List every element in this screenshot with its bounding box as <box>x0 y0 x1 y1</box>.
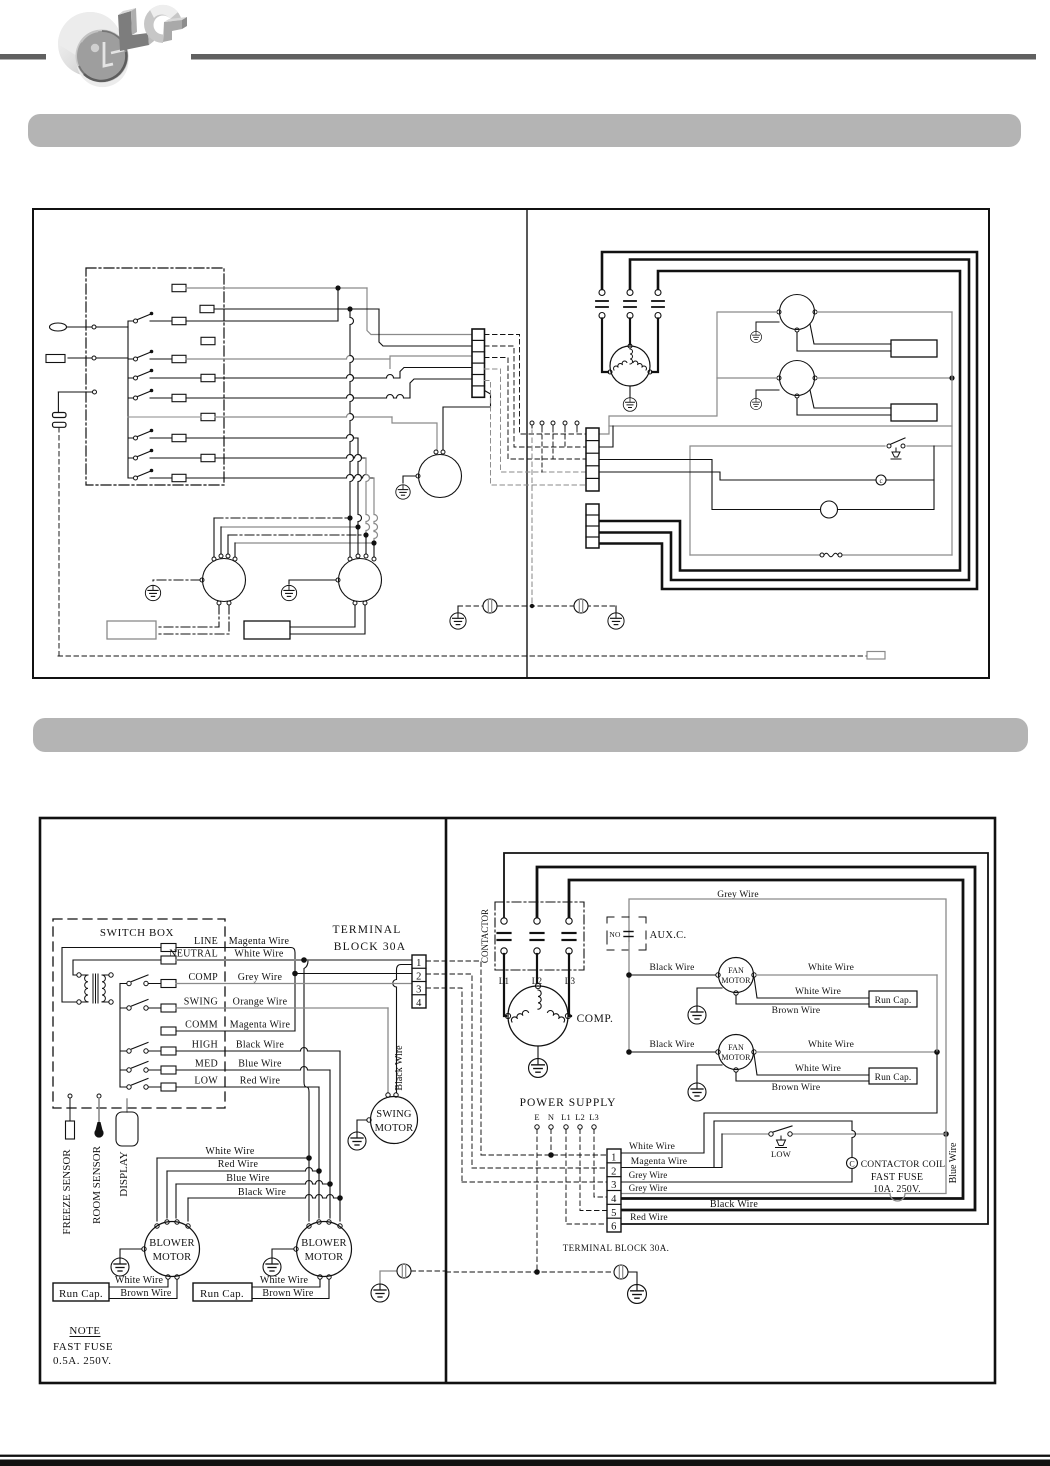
stack1 jog wire <box>599 426 613 447</box>
svg-text:Black Wire: Black Wire <box>650 1040 695 1050</box>
LOW red wire <box>176 1086 319 1088</box>
wire row F to connector c6 <box>215 375 400 378</box>
svg-text:FAN: FAN <box>728 1043 744 1052</box>
wire row H (grey) to swing motor <box>215 414 392 418</box>
wire row B (black) to connector c2 <box>214 308 379 310</box>
svg-text:FAN: FAN <box>728 966 744 975</box>
thick power loop L3 (row4) <box>569 880 963 1199</box>
row COMM terminal <box>161 1027 176 1035</box>
fan2 ground <box>756 390 779 398</box>
switch-box row I terminal <box>172 434 186 441</box>
bus end plug <box>867 652 885 660</box>
row H left wire <box>128 416 201 418</box>
freeze sensor symbol <box>68 1094 72 1098</box>
blower motor 1 (top diagram) <box>203 559 246 602</box>
fan motor 1 (top diagram) <box>780 295 815 330</box>
row MED terminal <box>161 1066 176 1074</box>
terminal stack 1 (top diagram) <box>586 428 599 491</box>
left plug rectangle <box>46 355 65 363</box>
row LOW terminal <box>161 1083 176 1091</box>
earth dashed bus (top diagram) <box>458 605 616 607</box>
blower2 ground wire <box>289 580 336 584</box>
pins block 1-4 <box>412 955 426 1008</box>
svg-text:AUX.C.: AUX.C. <box>650 930 687 941</box>
run capacitor fan2 <box>891 404 937 421</box>
svg-text:MOTOR: MOTOR <box>153 1252 192 1263</box>
svg-text:6: 6 <box>611 1222 617 1233</box>
switch-box row F terminal <box>201 374 215 381</box>
power supply terminals (top diagram) <box>530 421 534 425</box>
N dashed drop <box>550 1129 552 1155</box>
svg-text:TERMINAL BLOCK 30A.: TERMINAL BLOCK 30A. <box>563 1243 670 1253</box>
ground right (top diagram) <box>608 613 624 629</box>
switch-box row J terminal <box>201 454 215 461</box>
blower bus row3 dash-dot <box>228 534 366 536</box>
aux contact box <box>607 917 646 950</box>
svg-text:3: 3 <box>416 985 422 996</box>
svg-text:Black Wire: Black Wire <box>710 1199 758 1210</box>
svg-text:HIGH: HIGH <box>192 1040 218 1051</box>
COMM magenta wire <box>176 1030 295 1032</box>
fan1 grey feed <box>599 312 777 434</box>
svg-text:White Wire: White Wire <box>205 1146 255 1157</box>
svg-text:NOTE: NOTE <box>69 1325 100 1337</box>
contactor coil wire (top diagram) <box>599 472 876 480</box>
switch row G <box>128 397 134 399</box>
switch row F <box>128 377 134 379</box>
svg-text:Magenta Wire: Magenta Wire <box>229 936 290 947</box>
svg-text:MOTOR: MOTOR <box>305 1252 344 1263</box>
connector block 6-pin <box>472 329 485 397</box>
pin1 black wire to swing motor <box>295 973 412 975</box>
svg-text:CONTACTOR: CONTACTOR <box>480 909 490 963</box>
switch-box row A terminal <box>172 284 186 291</box>
svg-text:L1: L1 <box>561 1112 570 1122</box>
fan motor 1 (bottom) <box>719 958 754 993</box>
svg-text:White Wire: White Wire <box>115 1275 164 1286</box>
header rule left <box>0 54 46 60</box>
svg-text:L3: L3 <box>589 1112 598 1122</box>
svg-text:SWING: SWING <box>184 997 218 1008</box>
display symbol <box>126 1099 128 1112</box>
HIGH black wire <box>176 1048 340 1051</box>
bottom diagram outer box <box>40 818 995 1383</box>
footer thick rule <box>0 1460 1050 1466</box>
capacitor plates <box>53 413 67 418</box>
svg-text:DISPLAY: DISPLAY <box>118 1151 130 1196</box>
section header bar 1 <box>28 114 1021 147</box>
switch-box row E terminal <box>172 355 186 362</box>
L1 dashed drop to row6 <box>566 1129 607 1224</box>
switch MED <box>120 1069 127 1071</box>
fan1 ground <box>756 322 779 331</box>
row COMP terminal <box>161 980 176 988</box>
letter G block <box>144 5 182 43</box>
bottom dashed bus (top diagram) <box>58 655 867 657</box>
white loop right vertical (grey) <box>951 312 953 555</box>
svg-text:Run Cap.: Run Cap. <box>875 1073 912 1083</box>
comp windings Y <box>538 990 541 1009</box>
svg-text:White Wire: White Wire <box>808 963 854 973</box>
wire row G to connector c7 <box>186 395 410 398</box>
COMP grey wire to pin3 <box>176 983 412 985</box>
black wire fan2 <box>626 1049 632 1055</box>
left fuse to ground <box>380 1271 397 1284</box>
pin dashed links to power supply <box>426 961 481 1155</box>
wire row C joins row A <box>186 320 338 322</box>
connector dashed outputs to right half <box>485 335 587 435</box>
svg-text:LINE: LINE <box>194 936 218 947</box>
svg-text:L2: L2 <box>575 1112 584 1122</box>
svg-text:4: 4 <box>611 1194 617 1205</box>
contactor box (bottom, dash-dot) <box>495 902 584 970</box>
svg-text:White Wire: White Wire <box>795 1064 841 1074</box>
svg-text:Red Wire: Red Wire <box>630 1213 668 1223</box>
power terminal dashed drops <box>576 428 578 434</box>
svg-text:COMP.: COMP. <box>577 1013 614 1025</box>
letter L block <box>118 11 149 51</box>
svg-text:1: 1 <box>611 1153 617 1164</box>
svg-text:2: 2 <box>416 971 422 982</box>
svg-text:COMM: COMM <box>185 1020 218 1031</box>
bus drops to blower motor 1 <box>213 518 215 557</box>
fan2 white wire right <box>817 377 952 379</box>
wire row A (grey) to connector c1 <box>186 287 367 289</box>
svg-text:N: N <box>548 1112 554 1122</box>
switch row I <box>128 437 134 439</box>
thick power loop L3 <box>599 271 960 571</box>
svg-text:Red Wire: Red Wire <box>218 1159 259 1170</box>
NEUTRAL white wire to pin1 <box>176 959 412 961</box>
svg-text:POWER SUPPLY: POWER SUPPLY <box>520 1097 617 1109</box>
svg-text:LOW: LOW <box>771 1149 791 1159</box>
svg-text:White Wire: White Wire <box>260 1275 309 1286</box>
comp ground stub <box>629 386 631 397</box>
LOW lamp symbol <box>891 448 901 459</box>
switch bus <box>127 321 129 478</box>
contact leads to comp motor <box>602 319 608 373</box>
switch-box row B terminal <box>200 305 214 312</box>
svg-text:Orange Wire: Orange Wire <box>233 997 288 1008</box>
wire row K to blower bus v4 <box>186 475 374 478</box>
svg-text:SWING: SWING <box>376 1109 412 1120</box>
terminal stack 2 (top diagram) <box>586 504 599 548</box>
overload circle wire <box>599 460 821 510</box>
run cap 1 (bottom) <box>53 1283 109 1301</box>
LOW lamp symbol <box>776 1136 787 1148</box>
svg-text:Run Cap.: Run Cap. <box>59 1288 103 1300</box>
svg-text:LOW: LOW <box>194 1076 218 1087</box>
section header bar 2 <box>33 718 1028 752</box>
comp motor (top diagram) <box>610 346 650 386</box>
blower2 ground <box>272 1249 294 1258</box>
wire row E (grey) to connector c5 <box>186 356 390 359</box>
svg-text:2: 2 <box>611 1166 617 1177</box>
switch box (bottom, dashed) <box>53 919 225 1108</box>
header rule right <box>191 54 1036 60</box>
swing motor (top diagram) <box>419 455 462 498</box>
swing ground wire <box>357 1120 367 1132</box>
blower motor 2 (bottom) <box>297 1222 352 1277</box>
contactor contacts L1 L2 L3 <box>501 918 507 924</box>
ground left (top diagram) <box>450 613 466 629</box>
switch-box row K terminal <box>172 474 186 481</box>
SWING orange wire <box>176 1007 388 1009</box>
blower bus row1 dash-dot <box>214 517 350 519</box>
junction dot row A <box>335 285 340 290</box>
svg-text:Run Cap.: Run Cap. <box>875 996 912 1006</box>
switch row C <box>128 320 134 322</box>
svg-text:0.5A. 250V.: 0.5A. 250V. <box>53 1355 111 1367</box>
thick power loop L2 (black row5) <box>537 867 975 1210</box>
svg-text:L3: L3 <box>565 976 576 986</box>
svg-text:COMP: COMP <box>188 972 218 983</box>
switch row J <box>128 457 134 459</box>
blower1 ground wire (dash-dot) <box>153 580 200 584</box>
L2 dashed drop to row5 <box>580 1129 607 1211</box>
switch-box row H terminal <box>201 413 215 420</box>
comp ground <box>537 1046 539 1058</box>
row NEUTRAL terminal <box>161 956 176 964</box>
svg-text:4: 4 <box>416 998 422 1009</box>
svg-text:3: 3 <box>611 1180 617 1191</box>
contact leads to comp <box>504 954 506 1016</box>
run capacitor 1 (top diagram) <box>107 621 156 639</box>
LOW switch (top diagram) <box>887 444 891 448</box>
comp windings <box>630 349 633 364</box>
bus drops to blower motor 2 <box>349 518 351 557</box>
svg-text:BLOCK 30A: BLOCK 30A <box>334 941 406 953</box>
svg-text:TERMINAL: TERMINAL <box>332 924 401 936</box>
svg-text:E: E <box>534 1112 539 1122</box>
contactor contacts (top diagram) <box>599 290 605 296</box>
white wire fan2 <box>756 1051 937 1053</box>
L3 dashed drop to row4 <box>594 1129 607 1197</box>
svg-text:ROOM SENSOR: ROOM SENSOR <box>91 1145 103 1224</box>
ground (bottom right) <box>628 1285 647 1304</box>
switch row K <box>128 477 134 479</box>
blower motor 2 (top diagram) <box>339 559 382 602</box>
thick power loop L1 <box>599 252 977 589</box>
blower feed vertical v3 <box>366 458 370 535</box>
ground fan1 <box>697 988 722 1006</box>
run cap 2 (bottom) <box>193 1283 252 1301</box>
swing motor (bottom) <box>371 1097 418 1144</box>
terminal block 1-6 <box>607 1149 621 1232</box>
grey row4 with fuse <box>621 1131 946 1201</box>
footer thin rule <box>0 1455 1050 1457</box>
blower bus row4 <box>235 542 374 544</box>
svg-text:10A. 250V.: 10A. 250V. <box>873 1184 921 1195</box>
bottom earth dashed bus <box>446 1271 614 1273</box>
switch LOW <box>120 1086 127 1088</box>
top diagram outer box <box>33 209 989 678</box>
switch-box row C terminal <box>172 317 186 324</box>
dashed feeds rows 1-3 <box>481 1154 607 1156</box>
top diagram divider <box>526 209 528 678</box>
dashed drop from capacitor to bottom bus <box>58 428 60 657</box>
fan motor 2 (top diagram) <box>780 361 815 396</box>
svg-text:Blue Wire: Blue Wire <box>226 1173 270 1184</box>
ground blower1 <box>145 585 160 600</box>
svg-text:BLOWER: BLOWER <box>149 1238 195 1249</box>
thick power loop L2 <box>599 260 969 581</box>
svg-text:Black Wire: Black Wire <box>650 963 695 973</box>
svg-text:Blue Wire: Blue Wire <box>238 1059 282 1070</box>
transformer <box>77 973 113 1004</box>
white riser to blower bus <box>304 961 309 1155</box>
svg-text:FAST FUSE: FAST FUSE <box>53 1341 113 1353</box>
svg-text:c: c <box>879 477 882 485</box>
room sensor symbol <box>97 1094 101 1098</box>
ground swing (bottom) <box>348 1132 366 1150</box>
svg-text:Black Wire: Black Wire <box>236 1040 284 1051</box>
row HIGH terminal <box>161 1047 176 1055</box>
junction dot row B <box>347 306 352 311</box>
LOW lamp line <box>943 1131 949 1137</box>
blower feed vertical v4 <box>374 478 378 543</box>
svg-text:NO: NO <box>609 930 621 939</box>
fan motor 2 (bottom) <box>719 1035 754 1070</box>
white loop vertical <box>934 1049 940 1055</box>
row SWING terminal <box>161 1004 176 1012</box>
white loop bottom (grey) <box>609 425 952 427</box>
svg-text:White Wire: White Wire <box>234 949 284 960</box>
contactor coil branch <box>852 1121 856 1158</box>
svg-text:Red Wire: Red Wire <box>240 1076 281 1087</box>
white wire fan1 <box>756 974 937 976</box>
svg-text:SWITCH BOX: SWITCH BOX <box>100 927 174 939</box>
switch box (top, dash-dot) <box>86 268 224 485</box>
svg-text:MOTOR: MOTOR <box>721 976 751 985</box>
ground blower2 <box>281 585 296 600</box>
svg-text:White Wire: White Wire <box>795 987 841 997</box>
svg-text:NEUTRAL: NEUTRAL <box>169 949 218 960</box>
grey riser below aux <box>628 941 630 1052</box>
svg-text:MOTOR: MOTOR <box>375 1123 414 1134</box>
bus risers to blower motor 2 <box>308 1158 310 1221</box>
svg-text:FAST FUSE: FAST FUSE <box>871 1172 923 1183</box>
svg-text:Brown Wire: Brown Wire <box>772 1006 821 1016</box>
svg-text:5: 5 <box>611 1208 617 1219</box>
low-switch grey box top <box>690 446 885 555</box>
svg-text:Magenta Wire: Magenta Wire <box>631 1157 687 1167</box>
run capacitor fan1 <box>891 340 937 357</box>
power supply terminals <box>535 1125 539 1129</box>
row LINE terminal <box>161 944 176 952</box>
earth fuse (bottom right) <box>614 1265 628 1279</box>
LINE feed wire to transformer <box>62 948 161 1003</box>
run cap fan2 <box>869 1068 917 1084</box>
blower feed vertical v1 <box>350 309 354 518</box>
svg-text:MED: MED <box>195 1059 218 1070</box>
svg-text:Black Wire: Black Wire <box>238 1187 286 1198</box>
svg-text:Brown Wire: Brown Wire <box>262 1288 313 1299</box>
switch SWING <box>120 1007 127 1009</box>
comp motor (bottom) <box>508 986 568 1046</box>
switch bus (bottom) <box>119 984 121 1088</box>
left capsule fuse <box>50 323 67 331</box>
swing motor black feed from connector <box>443 391 491 451</box>
blower feed vertical v2 <box>358 438 362 527</box>
fuse right (top diagram) <box>574 599 588 613</box>
earth riser grey dashed <box>531 430 533 606</box>
blower bus row2 <box>221 526 358 528</box>
E dashed drop <box>536 1129 538 1272</box>
coil feed riser <box>714 1121 852 1168</box>
low-switch grey box bottom with fuse bump <box>690 554 952 556</box>
svg-text:Brown Wire: Brown Wire <box>772 1083 821 1093</box>
wire row I to blower bus v2 <box>186 435 358 439</box>
svg-text:CONTACTOR COIL: CONTACTOR COIL <box>861 1160 945 1170</box>
svg-text:FREEZE SENSOR: FREEZE SENSOR <box>61 1149 73 1235</box>
magenta riser to LOW line <box>621 1134 722 1168</box>
svg-text:1: 1 <box>416 958 422 969</box>
svg-text:Blue Wire: Blue Wire <box>948 1142 959 1183</box>
svg-text:MOTOR: MOTOR <box>721 1053 751 1062</box>
wire row J to blower bus v3 <box>215 455 366 459</box>
LINE magenta wire to COMM (vertical) <box>161 947 176 949</box>
blower motor 1 (bottom) <box>145 1222 200 1277</box>
bottom diagram divider <box>445 818 448 1383</box>
black wire fan1 <box>626 972 632 978</box>
svg-text:BLOWER: BLOWER <box>301 1238 347 1249</box>
switch HIGH <box>120 1050 127 1052</box>
svg-text:White Wire: White Wire <box>808 1040 854 1050</box>
svg-text:White Wire: White Wire <box>629 1142 675 1152</box>
thick power loop L1 (red row6) <box>504 853 988 1224</box>
switch-box row D terminal <box>201 337 215 344</box>
fan1 white wire right <box>817 311 952 313</box>
ground fan2 <box>697 1065 722 1083</box>
fan2 grey feed <box>717 377 777 379</box>
NEUTRAL feed wire to transformer <box>73 960 161 975</box>
svg-text:Magenta Wire: Magenta Wire <box>230 1020 291 1031</box>
svg-text:Grey Wire: Grey Wire <box>629 1183 668 1193</box>
switch COMP <box>120 983 127 985</box>
left capacitor wire <box>58 391 92 393</box>
svg-text:C: C <box>849 1160 854 1169</box>
run capacitor 2 (top diagram) <box>244 621 290 639</box>
switch row E <box>128 358 134 360</box>
svg-text:Black Wire: Black Wire <box>394 1045 405 1091</box>
svg-text:Grey Wire: Grey Wire <box>629 1170 668 1180</box>
swing feed riser <box>393 965 412 1094</box>
ground swing (top) <box>396 485 410 499</box>
swing ground wire <box>403 476 416 483</box>
MED blue wire <box>176 1067 330 1071</box>
switch-box row G terminal <box>172 394 186 401</box>
svg-text:Run Cap.: Run Cap. <box>200 1288 244 1300</box>
fuse left (top diagram) <box>483 599 497 613</box>
LG logo 3D <box>58 5 187 87</box>
blower1 ground <box>120 1249 142 1258</box>
svg-text:Brown Wire: Brown Wire <box>120 1288 171 1299</box>
svg-text:Grey Wire: Grey Wire <box>238 972 283 983</box>
run cap fan1 <box>869 991 917 1007</box>
